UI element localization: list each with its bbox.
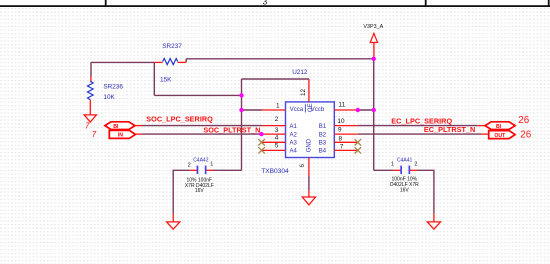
IC U212 TXB0304 xyxy=(261,69,334,175)
svg-text:OUT: OUT xyxy=(494,133,506,139)
wire pin11 to rail xyxy=(358,109,374,111)
junction dot pin3 end xyxy=(259,132,263,136)
pin 6 xyxy=(308,158,310,177)
power symbol V3P3_A xyxy=(363,24,383,57)
wire jog right of SR237 xyxy=(185,59,187,63)
pin 12 xyxy=(308,79,310,102)
ground under C4A41 xyxy=(427,214,440,230)
pin 10 xyxy=(334,125,358,127)
wire row1 right (EC_LPC_SERIRQ) xyxy=(358,125,478,127)
svg-text:V3P3_A: V3P3_A xyxy=(363,24,383,30)
svg-text:4: 4 xyxy=(275,135,279,142)
pin 11 xyxy=(334,109,358,111)
svg-text:U212: U212 xyxy=(292,69,308,76)
resistor SR237 xyxy=(154,43,186,83)
svg-text:B4: B4 xyxy=(319,149,327,155)
svg-text:TXB0304: TXB0304 xyxy=(261,168,289,175)
wire C4A41 right to ground xyxy=(418,170,434,213)
capacitor C4A42 xyxy=(185,158,214,195)
svg-text:2: 2 xyxy=(275,116,279,123)
ground under C4A42 xyxy=(167,214,180,230)
svg-text:SR236: SR236 xyxy=(103,84,123,91)
ground under pin 6 xyxy=(302,190,315,205)
svg-text:8: 8 xyxy=(339,135,343,142)
junction dot rail/pin11 xyxy=(372,108,376,112)
port BI left xyxy=(85,121,143,130)
svg-text:Vcca: Vcca xyxy=(290,107,304,113)
pin 9 xyxy=(334,133,358,135)
svg-text:10: 10 xyxy=(337,118,345,125)
svg-text:1: 1 xyxy=(276,102,280,109)
junction dot left rail/pin1 xyxy=(239,108,243,112)
pin 2 xyxy=(262,125,286,127)
svg-text:16V: 16V xyxy=(400,188,410,194)
svg-text:A3: A3 xyxy=(290,141,298,147)
svg-text:IN: IN xyxy=(118,133,123,139)
svg-text:1: 1 xyxy=(210,161,213,167)
svg-text:26: 26 xyxy=(518,115,529,126)
port IN left xyxy=(92,130,142,139)
pin 1 xyxy=(262,109,286,111)
wire branch vertical at x154 xyxy=(153,62,155,95)
svg-text:SOC_LPC_SERIRQ: SOC_LPC_SERIRQ xyxy=(146,114,213,123)
svg-text:EC_PLTRST_N: EC_PLTRST_N xyxy=(424,125,475,134)
svg-text:GND: GND xyxy=(307,138,313,152)
pin 8 xyxy=(334,141,358,143)
pin 4 xyxy=(262,141,286,143)
wire rail to C4A41 xyxy=(374,169,394,171)
svg-text:7: 7 xyxy=(85,121,90,130)
svg-text:1: 1 xyxy=(391,162,394,168)
svg-text:BI: BI xyxy=(113,124,119,130)
ground under SR236 xyxy=(84,115,96,122)
no-connect X pin 5 xyxy=(258,147,264,153)
svg-text:15K: 15K xyxy=(160,76,172,83)
svg-text:7: 7 xyxy=(92,130,97,139)
svg-text:11: 11 xyxy=(339,101,346,108)
svg-text:BI: BI xyxy=(496,124,502,130)
svg-text:26: 26 xyxy=(520,130,531,141)
no-connect X pin 4 xyxy=(258,139,264,145)
wire top horizontal to V3P3 rail xyxy=(186,58,374,60)
wire pin1 to rail xyxy=(242,109,263,111)
pin 7 xyxy=(334,149,358,151)
svg-text:3: 3 xyxy=(263,0,268,7)
wire row1 left (SOC_LPC_SERIRQ) xyxy=(143,125,263,127)
wire left rail vertical x241 xyxy=(241,79,243,170)
svg-text:SR237: SR237 xyxy=(162,43,182,50)
wire rail bottom to C4A42 xyxy=(213,169,242,171)
wire row2 left (SOC_PLTRST_N) xyxy=(142,133,261,135)
svg-text:B1: B1 xyxy=(319,124,327,130)
svg-text:5: 5 xyxy=(275,143,279,150)
svg-text:B2: B2 xyxy=(319,132,327,138)
svg-text:16V: 16V xyxy=(195,188,205,194)
resistor SR236 xyxy=(88,76,124,115)
capacitor C4A41 xyxy=(390,157,419,193)
svg-text:A1: A1 xyxy=(290,124,298,130)
svg-text:7: 7 xyxy=(340,144,344,151)
port BI right xyxy=(477,115,529,130)
wire y79 to pin12 xyxy=(242,78,309,80)
svg-text:3: 3 xyxy=(275,127,279,134)
svg-text:A2: A2 xyxy=(290,132,298,138)
wire row2 right (EC_PLTRST_N) xyxy=(358,133,481,135)
svg-text:10K: 10K xyxy=(103,94,115,101)
svg-text:OE: OE xyxy=(308,103,314,112)
svg-text:SOC_PLTRST_N: SOC_PLTRST_N xyxy=(203,125,260,134)
svg-text:2: 2 xyxy=(414,162,417,168)
svg-text:9: 9 xyxy=(338,127,342,134)
wire pin6 to ground xyxy=(308,176,310,190)
pin 5 xyxy=(262,149,286,151)
pin 3 xyxy=(261,133,285,135)
wire SR236 top drop xyxy=(90,62,92,76)
wire branch horizontal y95 xyxy=(154,94,241,96)
port OUT right xyxy=(481,130,532,141)
svg-text:2: 2 xyxy=(188,162,191,168)
svg-text:C4A41: C4A41 xyxy=(397,157,413,163)
wire C4A42 left to ground xyxy=(173,170,190,213)
svg-text:B3: B3 xyxy=(319,141,327,147)
svg-text:EC_LPC_SERIRQ: EC_LPC_SERIRQ xyxy=(391,116,452,125)
junction dot rail/top wire xyxy=(372,57,376,61)
svg-text:A4: A4 xyxy=(290,149,298,155)
junction dot pin11 end xyxy=(356,108,360,112)
wire top-left horizontal xyxy=(91,61,154,63)
no-connect X pin 7 xyxy=(355,147,361,153)
svg-text:12: 12 xyxy=(300,88,307,96)
wire V3P3 rail vertical xyxy=(373,57,375,170)
svg-text:C4A42: C4A42 xyxy=(193,158,209,164)
no-connect X pin 8 xyxy=(355,139,361,145)
svg-text:6: 6 xyxy=(299,164,306,168)
junction dot left rail/branch xyxy=(239,93,243,97)
